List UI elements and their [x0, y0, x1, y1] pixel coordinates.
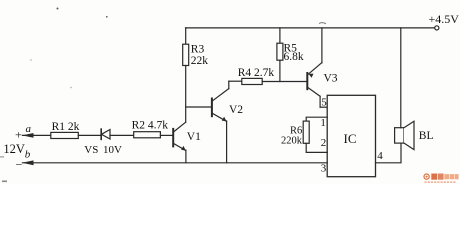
wire R4 to V3 base: [262, 81, 306, 83]
wire R5 riser: [279, 28, 281, 43]
svg-text:b: b: [25, 149, 31, 161]
wire node to V2 base: [186, 106, 212, 108]
wire R1 to VS: [78, 134, 101, 136]
arrow a left: [22, 133, 34, 138]
svg-text:+: +: [15, 128, 22, 142]
transistor V1: [173, 122, 186, 163]
svg-text:2: 2: [321, 137, 327, 149]
IC box: [327, 95, 375, 176]
svg-text:R2 4.7k: R2 4.7k: [132, 120, 169, 132]
wire R5 bottom to R4 node: [279, 60, 281, 81]
svg-text:IC: IC: [344, 131, 357, 146]
arrow b left: [22, 160, 34, 165]
wire R2 to V1 base: [160, 134, 172, 136]
resistor R3: [183, 44, 189, 65]
terminal +4.5V: [435, 26, 439, 30]
diode VS: [101, 129, 110, 139]
watermark: [424, 174, 459, 184]
resistor R4: [242, 78, 262, 84]
transistor V3: [307, 28, 327, 107]
wire R3 bottom to V1 collector node: [185, 66, 187, 123]
svg-text:V2: V2: [229, 104, 243, 116]
svg-text:BL: BL: [419, 130, 434, 142]
svg-text:1: 1: [320, 117, 326, 129]
wire pin4 to speaker: [376, 143, 402, 163]
svg-text:VS: VS: [84, 144, 98, 156]
speaker BL: [395, 28, 414, 150]
wire top +4.5V rail: [186, 27, 435, 29]
transistor V2: [212, 81, 242, 163]
svg-text:6.8k: 6.8k: [284, 51, 304, 63]
resistor R6: [303, 121, 309, 143]
wire pin2 R6 bottom: [306, 143, 327, 152]
svg-text:+4.5V: +4.5V: [429, 12, 460, 26]
svg-text:V1: V1: [187, 131, 201, 143]
svg-text:220k: 220k: [281, 135, 303, 146]
svg-text:22k: 22k: [191, 55, 209, 67]
resistor R1: [51, 132, 79, 138]
svg-text:R1 2k: R1 2k: [52, 121, 80, 133]
svg-text:10V: 10V: [103, 144, 122, 156]
svg-text:3: 3: [321, 163, 327, 175]
resistor R2: [134, 132, 161, 138]
svg-text:−: −: [16, 158, 23, 172]
wire pin1 R6 top: [306, 117, 327, 121]
svg-text:R4 2.7k: R4 2.7k: [238, 67, 275, 79]
svg-text:a: a: [26, 123, 32, 135]
svg-text:4: 4: [377, 150, 383, 162]
wire VS to R2: [110, 134, 134, 136]
wire line a: [22, 134, 50, 136]
smudge above rail: [320, 22, 326, 25]
wire R3 riser top: [185, 28, 187, 44]
svg-text:5: 5: [321, 96, 327, 108]
svg-text:V3: V3: [324, 72, 338, 84]
svg-text:R3: R3: [191, 43, 205, 55]
resistor R5: [277, 43, 283, 60]
svg-text:12V: 12V: [3, 142, 25, 156]
speck marks: [57, 8, 59, 10]
wire bottom rail b: [22, 162, 327, 164]
